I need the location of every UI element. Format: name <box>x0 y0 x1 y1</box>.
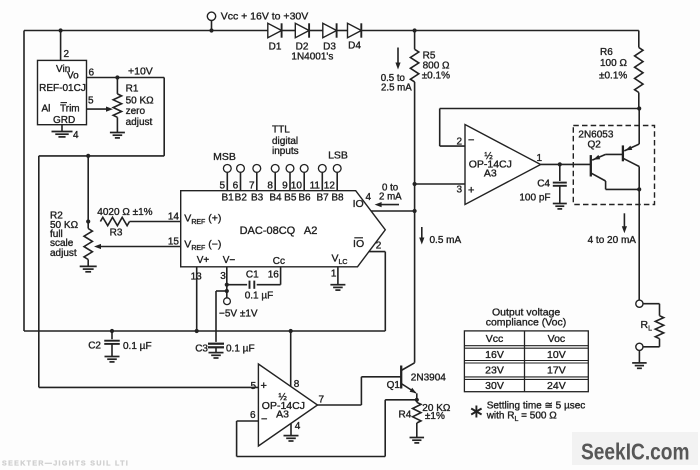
svg-text:±0.1%: ±0.1% <box>422 71 450 82</box>
svg-text:2: 2 <box>456 137 462 148</box>
svg-text:16: 16 <box>268 269 280 280</box>
svg-text:TTL: TTL <box>272 124 290 135</box>
svg-text:0.1 µF: 0.1 µF <box>245 290 274 301</box>
svg-text:10: 10 <box>291 180 303 191</box>
svg-text:5: 5 <box>88 96 94 107</box>
svg-text:0.1 µF: 0.1 µF <box>226 343 255 354</box>
svg-text:Vcc: Vcc <box>486 333 504 345</box>
svg-text:V+: V+ <box>197 255 210 266</box>
svg-text:2.5 mA: 2.5 mA <box>381 83 412 94</box>
svg-text:with RL = 500 Ω: with RL = 500 Ω <box>486 410 558 423</box>
svg-text:Q2: Q2 <box>588 139 602 150</box>
svg-text:23V: 23V <box>485 364 504 376</box>
svg-text:C2: C2 <box>88 341 101 352</box>
svg-text:SeekIC.com: SeekIC.com <box>581 438 690 464</box>
svg-text:5: 5 <box>219 180 225 191</box>
svg-text:50 KΩ: 50 KΩ <box>126 95 155 106</box>
svg-text:0.5 mA: 0.5 mA <box>430 235 462 246</box>
svg-text:9: 9 <box>282 180 288 191</box>
svg-text:1: 1 <box>537 153 543 164</box>
svg-text:B3: B3 <box>251 192 264 203</box>
svg-text:B8: B8 <box>331 192 344 203</box>
svg-text:Trim: Trim <box>60 104 80 115</box>
svg-text:Voc: Voc <box>548 333 566 345</box>
svg-text:24V: 24V <box>547 380 566 392</box>
svg-text:MSB: MSB <box>213 151 236 163</box>
svg-text:4020 Ω ±1%: 4020 Ω ±1% <box>97 207 152 218</box>
svg-text:+: + <box>261 380 267 392</box>
svg-text:C3: C3 <box>195 343 208 354</box>
svg-text:7: 7 <box>319 395 325 406</box>
svg-text:C4: C4 <box>537 179 550 190</box>
svg-text:0.1 µF: 0.1 µF <box>123 341 152 352</box>
svg-text:4: 4 <box>73 130 79 141</box>
svg-text:11: 11 <box>310 180 321 191</box>
svg-text:Al: Al <box>42 104 51 115</box>
svg-text:SEEKTER—JIGHTS SUIL LTI: SEEKTER—JIGHTS SUIL LTI <box>2 461 129 468</box>
svg-text:30V: 30V <box>485 380 504 392</box>
svg-text:−: − <box>261 413 267 425</box>
svg-text:IO: IO <box>353 238 364 250</box>
svg-text:4 to 20 mA: 4 to 20 mA <box>588 235 637 246</box>
svg-text:R5: R5 <box>423 50 436 61</box>
svg-text:2: 2 <box>376 241 382 252</box>
svg-text:REF-01CJ: REF-01CJ <box>39 83 86 94</box>
svg-text:6: 6 <box>89 68 95 79</box>
svg-text:D1: D1 <box>269 42 282 53</box>
svg-text:1: 1 <box>331 269 337 280</box>
svg-text:R6: R6 <box>600 47 613 58</box>
svg-text:B1: B1 <box>221 192 234 203</box>
svg-text:+: + <box>468 185 474 197</box>
svg-text:100 Ω: 100 Ω <box>600 58 627 69</box>
svg-text:R3: R3 <box>110 227 123 238</box>
svg-text:+10V: +10V <box>128 65 153 77</box>
svg-text:7: 7 <box>249 180 255 191</box>
svg-text:±0.1%: ±0.1% <box>599 71 627 82</box>
svg-text:3: 3 <box>220 271 226 282</box>
svg-text:6: 6 <box>250 410 256 421</box>
svg-text:LSB: LSB <box>328 150 348 162</box>
svg-text:2: 2 <box>64 49 70 60</box>
svg-text:compliance (Voc): compliance (Voc) <box>486 316 567 328</box>
svg-text:−: − <box>468 134 474 146</box>
svg-text:A2: A2 <box>304 225 317 237</box>
svg-text:B7: B7 <box>316 192 329 203</box>
svg-text:4: 4 <box>366 192 372 203</box>
svg-text:V−: V− <box>223 255 236 266</box>
svg-text:adjust: adjust <box>50 248 77 259</box>
svg-text:B5: B5 <box>284 192 297 203</box>
svg-text:2N3904: 2N3904 <box>411 373 446 384</box>
svg-text:12: 12 <box>324 180 336 191</box>
svg-text:8: 8 <box>267 180 273 191</box>
svg-text:D4: D4 <box>348 41 361 52</box>
svg-text:B2: B2 <box>235 192 248 203</box>
svg-text:Q1: Q1 <box>387 380 401 391</box>
svg-text:A3: A3 <box>276 409 289 421</box>
svg-text:Vcc + 16V to +30V: Vcc + 16V to +30V <box>221 11 309 23</box>
svg-text:17V: 17V <box>547 364 566 376</box>
svg-text:1N4001's: 1N4001's <box>291 52 333 63</box>
svg-text:±1%: ±1% <box>425 411 445 422</box>
svg-text:B4: B4 <box>269 192 282 203</box>
svg-text:R1: R1 <box>126 84 139 95</box>
svg-text:GRD: GRD <box>53 115 75 126</box>
svg-text:zero: zero <box>126 106 146 117</box>
svg-text:IO: IO <box>353 198 364 210</box>
svg-text:B6: B6 <box>298 192 311 203</box>
svg-text:C1: C1 <box>246 269 259 280</box>
svg-text:Vo: Vo <box>67 71 79 82</box>
svg-text:4: 4 <box>295 421 301 432</box>
svg-text:Cc: Cc <box>273 256 285 267</box>
svg-text:R4: R4 <box>399 410 412 421</box>
svg-text:−5V ±1V: −5V ±1V <box>219 309 258 320</box>
svg-text:adjust: adjust <box>126 117 153 128</box>
svg-text:16V: 16V <box>485 349 504 361</box>
svg-text:6: 6 <box>233 180 239 191</box>
svg-text:2 mA: 2 mA <box>379 192 402 203</box>
svg-text:100 pF: 100 pF <box>519 193 550 204</box>
svg-text:15: 15 <box>168 236 180 247</box>
svg-text:13: 13 <box>191 271 203 282</box>
svg-text:A3: A3 <box>484 168 497 180</box>
svg-text:8: 8 <box>294 379 300 390</box>
svg-text:inputs: inputs <box>272 146 299 157</box>
svg-text:10V: 10V <box>547 349 566 361</box>
svg-text:3: 3 <box>456 184 462 195</box>
svg-text:5: 5 <box>250 381 256 392</box>
svg-text:DAC-08CQ: DAC-08CQ <box>240 225 296 237</box>
svg-text:14: 14 <box>168 212 180 223</box>
